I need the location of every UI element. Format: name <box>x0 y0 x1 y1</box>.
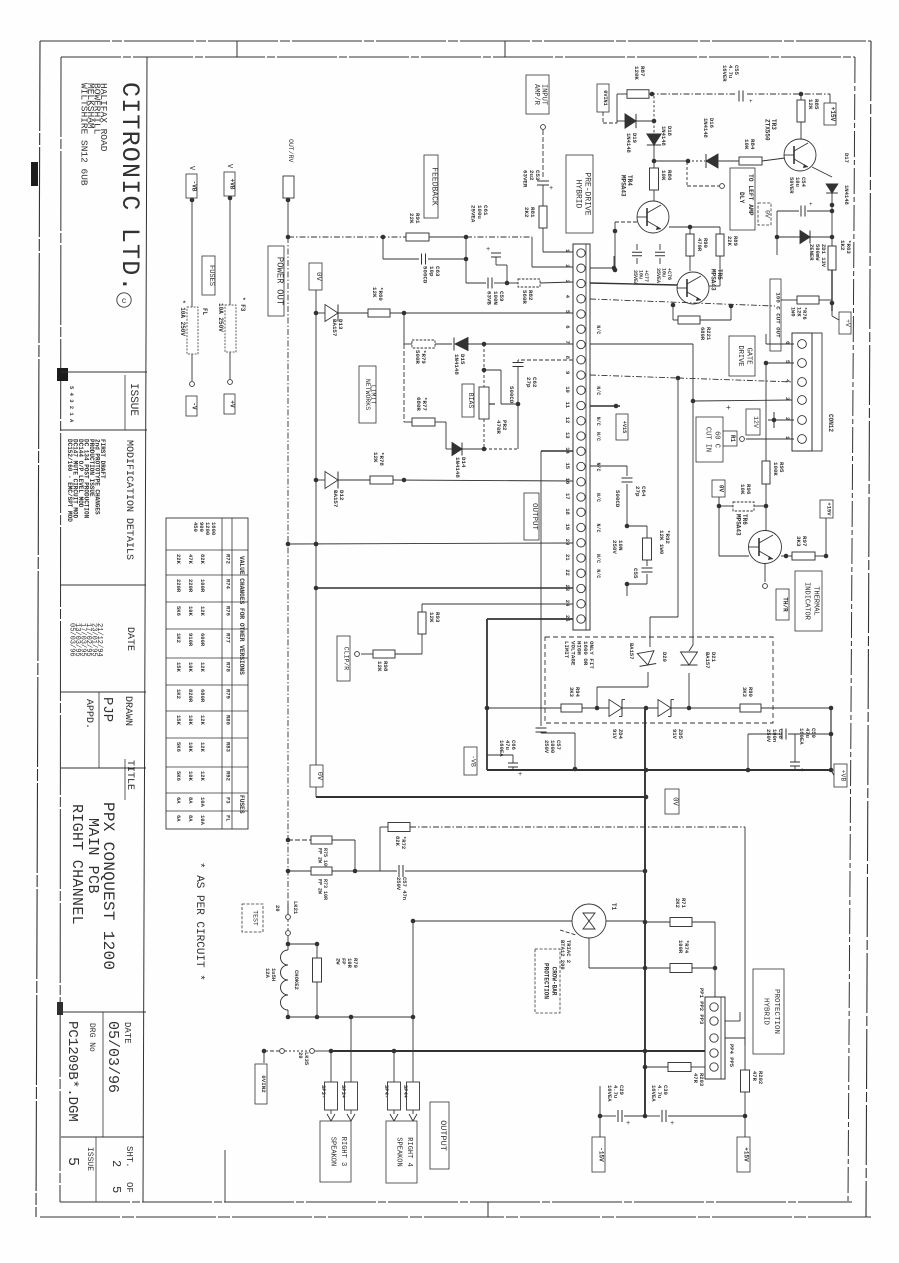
pin 10 <box>564 386 601 395</box>
svg-text:-VB: -VB <box>470 755 477 767</box>
diode D18 <box>647 121 673 168</box>
node 0V <box>758 203 771 225</box>
svg-text:8A: 8A <box>187 797 194 804</box>
svg-text:THERMAL: THERMAL <box>811 586 819 615</box>
connector SP3- <box>320 1082 338 1121</box>
svg-text:+: + <box>486 246 490 254</box>
svg-text:160EA: 160EA <box>798 728 805 745</box>
transistor TR3 <box>764 119 816 171</box>
zener ZD4 <box>609 700 658 740</box>
svg-text:R1: R1 <box>729 435 736 443</box>
label RIGHT 3 SPEAKON <box>320 1121 351 1182</box>
pin 19 <box>564 523 601 532</box>
node +15V <box>737 1116 750 1172</box>
svg-text:c: c <box>122 297 127 306</box>
svg-text:5K6: 5K6 <box>175 771 182 781</box>
wire pin23 0V net <box>316 587 573 589</box>
label FUSES <box>202 256 215 295</box>
svg-text:20: 20 <box>274 905 281 912</box>
svg-text:10K: 10K <box>187 662 194 673</box>
wire pin2 stub <box>590 256 616 270</box>
svg-text:250V: 250V <box>543 740 550 754</box>
svg-text:+: + <box>726 404 731 413</box>
svg-text:10K: 10K <box>743 139 750 150</box>
label POWER OUT <box>268 246 284 316</box>
svg-text:27p: 27p <box>525 377 532 388</box>
svg-text:R74: R74 <box>225 579 232 590</box>
svg-text:DRIVE: DRIVE <box>736 345 744 366</box>
label OUTPUT <box>524 493 539 540</box>
svg-text:D17: D17 <box>843 153 850 163</box>
svg-text:* F3: * F3 <box>239 297 246 312</box>
wire pin9 net <box>590 375 794 647</box>
label OUTPUT <box>430 1102 449 1169</box>
svg-text:BA157: BA157 <box>331 319 338 337</box>
svg-text:0VIN2: 0VIN2 <box>260 1075 267 1093</box>
wire -VB bus <box>487 768 831 773</box>
svg-text:N/C: N/C <box>595 524 601 533</box>
svg-text:+15V: +15V <box>825 502 832 516</box>
resistor R91 <box>406 213 429 241</box>
capacitor C62 <box>508 360 573 449</box>
svg-text:12K: 12K <box>199 662 206 673</box>
svg-text:250V: 250V <box>395 877 402 891</box>
svg-text:BA157: BA157 <box>704 652 711 669</box>
svg-text:R80: R80 <box>225 715 232 725</box>
svg-text:91V: 91V <box>611 729 618 740</box>
values table <box>166 518 248 829</box>
svg-text:POWER OUT: POWER OUT <box>275 257 285 306</box>
wire <box>468 342 573 347</box>
capacitor C61 <box>470 205 507 283</box>
choke CHOKE2 <box>264 944 300 1017</box>
svg-text:+V: +V <box>229 400 236 408</box>
svg-text:AMP/R: AMP/R <box>532 84 540 106</box>
svg-text:F3: F3 <box>225 797 232 804</box>
wire OUT/RV rail <box>286 198 291 916</box>
drawing title <box>68 802 117 970</box>
svg-text:5 4 3 2 1 A: 5 4 3 2 1 A <box>68 386 75 423</box>
svg-text:35VEA: 35VEA <box>655 268 661 283</box>
svg-text:+: + <box>670 1120 674 1128</box>
resistor R202 <box>741 827 765 1118</box>
node 12V <box>746 409 760 435</box>
svg-text:12K: 12K <box>199 771 206 782</box>
svg-text:6: 6 <box>564 325 571 328</box>
svg-text:10A: 10A <box>199 797 206 808</box>
svg-text:LIMIT: LIMIT <box>563 641 570 659</box>
svg-text:600R: 600R <box>199 633 206 647</box>
resistor R93 <box>418 604 573 654</box>
svg-text:N/C: N/C <box>595 493 601 502</box>
label FEEDBACK <box>424 155 438 218</box>
svg-text:0V: 0V <box>718 485 725 493</box>
wire speaker feed <box>411 919 572 1017</box>
issue row <box>68 383 139 423</box>
svg-text:0V: 0V <box>670 797 678 806</box>
svg-text:12K: 12K <box>199 742 206 753</box>
svg-text:2W: 2W <box>334 958 341 965</box>
triac T1 <box>572 903 617 938</box>
svg-text:BA157: BA157 <box>628 643 635 660</box>
diode D19 <box>617 96 656 154</box>
svg-text:5: 5 <box>64 1157 81 1166</box>
capacitor C55 <box>721 65 753 105</box>
resistor R81 <box>523 206 573 252</box>
svg-text:1N4148: 1N4148 <box>702 118 709 139</box>
svg-text:12K: 12K <box>199 715 206 726</box>
label PRE-DRIVE HYBRID <box>566 155 593 233</box>
svg-text:DATE: DATE <box>124 627 135 651</box>
wire PP2 stub <box>725 1012 740 1021</box>
svg-text:7: 7 <box>564 341 571 344</box>
resistor R90b <box>740 687 833 712</box>
drawn / approved <box>83 696 133 729</box>
pin 14 <box>564 447 585 455</box>
wire <box>412 1017 414 1082</box>
resistor R96 <box>717 484 766 511</box>
svg-text:10A: 10A <box>199 815 206 826</box>
svg-text:OF: OF <box>124 1182 134 1193</box>
wire <box>190 198 195 307</box>
svg-text:N/C: N/C <box>595 386 601 395</box>
pin 7 <box>564 340 585 348</box>
svg-text:2: 2 <box>109 1160 123 1167</box>
label CROW-BAR PROTECTION <box>535 949 560 1013</box>
svg-text:82K: 82K <box>199 554 206 565</box>
svg-text:5: 5 <box>109 1186 123 1193</box>
fuse FL <box>179 300 208 354</box>
connector PP strip <box>698 988 735 1079</box>
svg-text:3K3: 3K3 <box>568 687 575 698</box>
wire feedback tap <box>288 235 406 240</box>
wire pin14 net <box>541 451 573 726</box>
capacitor C50 <box>790 728 817 775</box>
svg-text:470R: 470R <box>696 238 703 252</box>
svg-text:R92: R92 <box>225 771 232 781</box>
resistor R87 <box>617 66 649 123</box>
fuse F3 <box>217 297 246 352</box>
svg-text:D20: D20 <box>661 652 668 662</box>
pin 24 <box>564 600 585 608</box>
wire <box>429 235 573 267</box>
node OUT/RV <box>283 139 294 198</box>
svg-text:20: 20 <box>297 1052 304 1059</box>
svg-text:FP 2W: FP 2W <box>317 848 323 863</box>
svg-text:DLY: DLY <box>738 192 745 204</box>
wire pin7 right net <box>590 344 794 651</box>
issue number <box>64 1147 94 1171</box>
svg-text:1K2: 1K2 <box>175 689 182 699</box>
svg-text:-VB: -VB <box>191 181 198 192</box>
svg-text:APPD.: APPD. <box>83 699 94 729</box>
resistor R221 <box>673 305 731 341</box>
wire <box>190 354 195 386</box>
pin 22 <box>564 569 601 578</box>
wire <box>228 196 233 305</box>
svg-text:-V: -V <box>191 402 198 410</box>
svg-text:+15V: +15V <box>829 107 836 122</box>
wire TR4 base <box>613 222 637 272</box>
svg-text:2K2: 2K2 <box>523 207 530 218</box>
wire <box>315 787 317 797</box>
svg-text:22K: 22K <box>726 236 733 247</box>
pin 25 <box>564 615 585 623</box>
svg-text:+15V: +15V <box>743 1147 750 1162</box>
svg-text:R78: R78 <box>225 662 232 673</box>
pin 13 <box>564 432 601 441</box>
node +V15 <box>590 404 628 440</box>
capacitor C57 <box>536 728 578 771</box>
svg-text:MODIFICATION DETAILS: MODIFICATION DETAILS <box>123 440 134 560</box>
wire pin4 net <box>590 299 775 308</box>
node 0V <box>712 480 725 556</box>
svg-text:35VEA: 35VEA <box>632 270 638 285</box>
label 100 C CUT OUT <box>770 279 781 351</box>
svg-text:RIGHT 3: RIGHT 3 <box>339 1137 347 1166</box>
svg-text:SP4+: SP4+ <box>402 1085 409 1099</box>
svg-text:1N4148: 1N4148 <box>625 133 632 154</box>
svg-text:+: + <box>809 201 813 208</box>
svg-text:680R: 680R <box>199 689 206 703</box>
svg-text:+VB: +VB <box>229 179 236 190</box>
svg-text:BA157: BA157 <box>332 490 339 508</box>
svg-text:FL: FL <box>201 308 208 316</box>
svg-text:10K: 10K <box>660 170 667 181</box>
wire pin3 to TR5 base <box>590 283 677 285</box>
svg-text:23: 23 <box>564 585 571 592</box>
svg-text:05/03/96: 05/03/96 <box>104 1021 121 1093</box>
capacitor C30 <box>645 1085 745 1128</box>
wire pin6 net <box>764 334 794 365</box>
diode D17 <box>826 153 850 246</box>
label PROTECTION HYBRID <box>753 969 784 1054</box>
svg-text:C55: C55 <box>632 568 639 579</box>
wire TR4 emitter <box>669 225 720 230</box>
svg-text:1N4148: 1N4148 <box>453 354 460 375</box>
svg-text:680R: 680R <box>415 397 422 411</box>
svg-text:TH/R: TH/R <box>782 597 789 612</box>
svg-text:47R: 47R <box>692 1073 699 1084</box>
date value <box>104 1021 132 1093</box>
svg-text:11: 11 <box>564 402 571 409</box>
diode D12 <box>316 472 345 508</box>
svg-text:10A 250V: 10A 250V <box>217 303 224 332</box>
svg-text:MAIN PCB: MAIN PCB <box>84 818 101 894</box>
svg-text:PRE-DRIVE: PRE-DRIVE <box>582 172 591 215</box>
svg-text:10K: 10K <box>739 484 746 495</box>
drawing number <box>64 1021 96 1122</box>
svg-text:SPEAKON: SPEAKON <box>329 1137 337 1166</box>
capacitor C58 <box>748 729 833 771</box>
svg-text:560R: 560R <box>521 290 528 304</box>
diode D16 <box>654 118 739 168</box>
svg-text:0V: 0V <box>315 772 323 781</box>
node 0VIN2 <box>255 1051 267 1104</box>
wire input <box>541 125 546 177</box>
svg-text:6A: 6A <box>175 815 182 822</box>
svg-text:0VIN1: 0VIN1 <box>602 90 608 106</box>
svg-text:100 C CUT OUT: 100 C CUT OUT <box>775 292 782 338</box>
node +15V <box>824 103 836 125</box>
label RIGHT 4 SPEAKON <box>386 1121 417 1183</box>
capacitor C59 <box>466 237 509 305</box>
svg-text:+: + <box>749 98 753 105</box>
wire <box>390 311 573 316</box>
wire T1 right <box>560 921 645 968</box>
svg-text:2: 2 <box>564 264 571 267</box>
wire 0V bus <box>316 795 648 800</box>
svg-text:+V15: +V15 <box>621 421 627 433</box>
scan edge marks <box>31 162 68 1015</box>
resistor R78 <box>338 452 393 484</box>
svg-text:10K: 10K <box>187 742 194 753</box>
svg-text:ZTX550: ZTX550 <box>764 119 771 141</box>
node -V <box>186 396 198 416</box>
svg-text:21: 21 <box>564 554 571 561</box>
svg-text:+VB: +VB <box>840 770 847 782</box>
svg-text:N/C: N/C <box>595 463 601 472</box>
preset PR2 <box>479 344 518 449</box>
resistor R94 <box>487 687 609 712</box>
svg-text:-15V: -15V <box>598 1147 605 1162</box>
svg-text:R77: R77 <box>225 633 232 643</box>
wire top rail <box>617 92 830 103</box>
svg-text:DRAWN: DRAWN <box>122 696 133 726</box>
diode D15 <box>435 338 468 376</box>
pin 9 <box>564 371 585 379</box>
capacitor C66 <box>487 740 522 779</box>
resistor R95 <box>762 363 785 530</box>
svg-text:12K: 12K <box>372 452 379 463</box>
svg-text:SP3+: SP3+ <box>340 1085 347 1099</box>
svg-text:FUSES: FUSES <box>238 795 245 814</box>
wire 0V vertical heavy <box>643 708 648 1116</box>
svg-text:OUTPUT: OUTPUT <box>530 503 538 531</box>
wire <box>831 303 833 316</box>
node +VB <box>834 764 847 787</box>
svg-text:22K: 22K <box>175 554 182 565</box>
svg-text:5K6: 5K6 <box>175 742 182 752</box>
connector CON12 <box>784 333 834 451</box>
svg-text:NETWORKS: NETWORKS <box>364 379 371 410</box>
pin 23 <box>564 584 585 592</box>
svg-text:12K: 12K <box>371 287 378 298</box>
wire <box>350 1017 352 1082</box>
link LK21 <box>242 901 299 946</box>
svg-text:500CD: 500CD <box>614 490 621 508</box>
thermal indicator <box>763 564 822 631</box>
svg-text:DC152/160 - EMC/SPT MOD: DC152/160 - EMC/SPT MOD <box>66 439 73 522</box>
node +15V <box>820 500 833 556</box>
svg-text:91V: 91V <box>671 729 678 740</box>
svg-text:PP4 PP5: PP4 PP5 <box>728 1044 735 1068</box>
svg-text:16: 16 <box>564 478 571 485</box>
node -15V <box>592 1116 605 1172</box>
svg-text:CUT IN: CUT IN <box>703 427 711 452</box>
node 0V <box>309 263 322 290</box>
svg-text:T1: T1 <box>610 903 617 911</box>
svg-text:220R: 220R <box>175 579 182 593</box>
wire pin2 bar <box>726 404 794 428</box>
wire TR3 collector <box>812 167 832 177</box>
svg-text:24: 24 <box>564 600 571 607</box>
resistor R89 <box>709 227 739 286</box>
svg-text:100K: 100K <box>772 462 779 476</box>
pin 20 <box>564 539 585 547</box>
wire <box>228 352 233 384</box>
svg-text:LK21: LK21 <box>292 901 299 915</box>
sheet number <box>109 1146 134 1193</box>
svg-text:22K: 22K <box>408 213 415 224</box>
resistor R203 <box>645 1063 705 1087</box>
only-fit dashed box <box>545 637 773 723</box>
svg-text:R83: R83 <box>225 742 232 753</box>
label BIAS <box>462 384 474 417</box>
svg-text:12K: 12K <box>807 99 814 110</box>
svg-text:82K: 82K <box>394 836 401 847</box>
svg-text:FEEDBACK: FEEDBACK <box>429 167 438 206</box>
pin 11 <box>564 401 585 409</box>
svg-text:5K6: 5K6 <box>175 606 182 616</box>
connector pre-drive hybrid strip <box>573 244 590 630</box>
connector SP4- <box>383 1082 401 1121</box>
capacitor C54 <box>777 177 832 217</box>
svg-text:CLIP/R: CLIP/R <box>343 647 350 671</box>
title block grid <box>61 57 147 1202</box>
svg-text:12K: 12K <box>199 606 206 617</box>
svg-text:12K: 12K <box>376 661 383 672</box>
svg-text:13: 13 <box>564 432 571 439</box>
svg-text:500CD: 500CD <box>422 266 429 284</box>
pin 5 <box>564 310 585 318</box>
pin 6 <box>564 325 601 334</box>
svg-text:HYBRID: HYBRID <box>762 998 770 1026</box>
svg-text:CON12: CON12 <box>827 414 834 432</box>
svg-text:16VEA: 16VEA <box>650 1085 657 1102</box>
svg-text:50VER: 50VER <box>788 177 795 194</box>
svg-text:R79: R79 <box>225 689 232 699</box>
svg-text:PROTECTION: PROTECTION <box>772 989 780 1034</box>
svg-text:17: 17 <box>564 493 571 500</box>
svg-text:+: + <box>626 1120 630 1128</box>
svg-text:1N4148: 1N4148 <box>454 457 461 478</box>
svg-text:TO LEFT AMP: TO LEFT AMP <box>747 174 754 216</box>
svg-text:VALUE CHANGES FOR OTHER VERSIO: VALUE CHANGES FOR OTHER VERSIONS <box>238 556 245 675</box>
node 0V mid <box>665 789 679 814</box>
svg-text:+: + <box>800 767 804 775</box>
transistor TR4 <box>620 175 669 233</box>
resistor R74 <box>589 940 715 973</box>
svg-text:220R: 220R <box>187 579 194 593</box>
resistor R86 <box>650 168 674 201</box>
svg-text:16VER: 16VER <box>721 65 728 82</box>
svg-text:ISSUE: ISSUE <box>85 1147 94 1171</box>
resistor R75 <box>286 836 358 873</box>
svg-text:N/C: N/C <box>595 325 601 334</box>
resistor R63 <box>828 240 852 311</box>
svg-text:SP4-: SP4- <box>383 1085 390 1098</box>
svg-text:1N4148: 1N4148 <box>660 126 667 147</box>
svg-text:0V: 0V <box>764 210 771 218</box>
pin 12 <box>564 417 601 426</box>
wire <box>393 1051 395 1082</box>
node V+VB <box>224 164 236 196</box>
svg-text:ZENER: ZENER <box>808 244 815 261</box>
diode D14 <box>435 422 518 478</box>
pin 3 <box>564 279 585 287</box>
svg-text:8A: 8A <box>187 815 194 822</box>
